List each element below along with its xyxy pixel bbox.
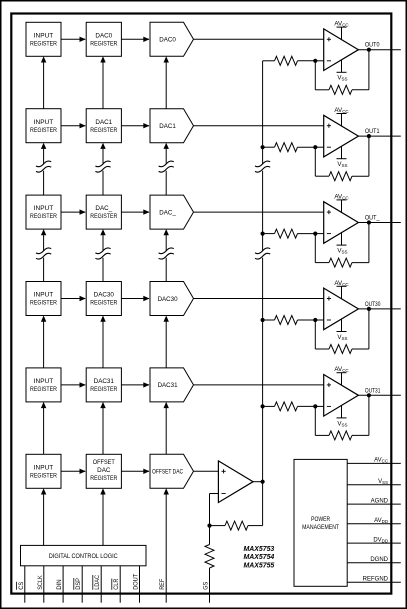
svg-text:OUT31: OUT31	[365, 387, 381, 394]
svg-text:VSS: VSS	[337, 334, 347, 341]
power AVCC (op-amp OUT_)	[334, 193, 349, 212]
DAC_ register	[86, 195, 121, 229]
wire: DAC_ output to amplifier	[194, 211, 324, 213]
svg-text:REGISTER: REGISTER	[30, 213, 57, 220]
svg-text:DIGITAL CONTROL LOGIC: DIGITAL CONTROL LOGIC	[49, 553, 118, 560]
svg-text:REGISTER: REGISTER	[90, 40, 117, 47]
svg-text:REGISTER: REGISTER	[30, 472, 57, 479]
node: feedback bus tap row 3	[261, 318, 265, 322]
svg-text:INPUT: INPUT	[34, 205, 54, 212]
svg-text:AVCC: AVCC	[334, 280, 349, 287]
svg-text:DAC31: DAC31	[158, 382, 179, 389]
wire: DAC reference bus segment rows 0-1	[164, 56, 169, 108]
op-amp OUT_ buffer	[324, 202, 359, 244]
svg-text:OUT30: OUT30	[365, 301, 381, 308]
resistor (feedback, OUT31 stage)	[315, 395, 369, 440]
resistor (feedback, OUT30 stage)	[315, 309, 369, 354]
svg-text:DSP: DSP	[75, 578, 82, 590]
DAC_ converter	[150, 195, 194, 229]
DAC30 converter	[150, 282, 194, 316]
node: offset amp output junction	[261, 480, 265, 484]
wire	[315, 233, 323, 235]
node GS label	[203, 582, 210, 590]
node: OUT0 junction	[367, 48, 371, 52]
wire: input register to dac1 register	[61, 123, 86, 128]
wire: dac30 register to DAC30	[121, 296, 149, 301]
wire: control to input registers	[41, 488, 46, 545]
svg-text:DOUT: DOUT	[133, 574, 140, 590]
node: inverting input junction OUT_	[313, 232, 317, 236]
svg-text:VSS: VSS	[337, 161, 347, 168]
wire: DAC0 output to amplifier	[194, 38, 324, 40]
svg-text:SCLK: SCLK	[37, 575, 44, 590]
resistor (GS gain select)	[205, 526, 214, 603]
pin CLR	[112, 566, 120, 603]
wire: input register to dac30 register	[61, 296, 86, 301]
power VSS (op-amp OUT31)	[337, 405, 348, 427]
wire: control to DAC registers	[100, 488, 105, 545]
wire: DAC reference bus segment rows 1-2	[159, 143, 174, 195]
resistor (gain set, OUT0 stage)	[263, 56, 316, 65]
wire: DAC reference bus segment rows 3-4	[164, 316, 169, 368]
svg-text:AVCC: AVCC	[334, 21, 349, 28]
svg-text:DAC30: DAC30	[158, 296, 179, 303]
wire: input-register data bus segment rows 3-4	[41, 316, 46, 368]
svg-text:REGISTER: REGISTER	[30, 386, 57, 393]
wire: OUT31 output	[358, 394, 400, 396]
svg-text:AVCC: AVCC	[334, 366, 349, 373]
svg-text:DAC0: DAC0	[159, 37, 176, 44]
wire: DAC31 output to amplifier	[194, 384, 324, 386]
wire	[315, 146, 323, 148]
power AVCC (op-amp OUT31)	[334, 366, 349, 385]
svg-text:DAC1: DAC1	[95, 119, 112, 126]
wire: input-register data bus segment rows 0-1	[41, 56, 46, 108]
svg-text:AVCC: AVCC	[334, 107, 349, 114]
resistor (gain set, OUT30 stage)	[263, 316, 316, 325]
node: OUT30 junction	[367, 307, 371, 311]
svg-text:REGISTER: REGISTER	[30, 127, 57, 134]
OFFSET DAC converter	[150, 454, 194, 488]
pin DIN	[56, 566, 63, 603]
svg-text:VSS: VSS	[337, 248, 347, 255]
wire: DAC-register data bus segment rows 2-3	[95, 229, 110, 281]
svg-text:POWER: POWER	[311, 516, 330, 523]
svg-text:REGISTER: REGISTER	[90, 127, 117, 134]
wire: offset feedback bus	[255, 61, 270, 482]
wire: input register to dac_ register	[61, 209, 86, 214]
svg-text:OFFSET: OFFSET	[93, 459, 115, 466]
svg-text:AVDD: AVDD	[374, 518, 388, 524]
svg-text:REF: REF	[159, 579, 166, 590]
wire: OUT_ output	[358, 222, 400, 224]
node: feedback bus tap row 4	[261, 404, 265, 408]
resistor (gain set, OUT_ stage)	[263, 229, 316, 238]
svg-text:INPUT: INPUT	[34, 32, 54, 39]
pin REFGND	[347, 576, 401, 582]
pin LDAC	[93, 566, 101, 603]
node: offset feedback junction	[207, 524, 211, 528]
wire: DAC-register data bus segment rows 1-2	[95, 143, 110, 195]
node: OUT_ junction	[367, 220, 371, 224]
wire: input register to dac31 register	[61, 382, 86, 387]
wire: input register to dac0 register	[61, 37, 86, 42]
svg-text:INPUT: INPUT	[34, 464, 54, 471]
node: inverting input junction OUT0	[313, 59, 317, 63]
svg-text:MAX5753: MAX5753	[244, 546, 275, 553]
node REF label	[159, 579, 166, 590]
resistor (offset feedback)	[210, 482, 263, 530]
wire: DAC-register data bus segment rows 3-4	[100, 316, 105, 368]
wire: DAC reference bus segment rows 2-3	[159, 229, 174, 281]
DAC31 converter	[150, 368, 194, 402]
input register (DAC1 row)	[26, 109, 61, 143]
node: feedback bus tap row 1	[261, 145, 265, 149]
svg-text:REGISTER: REGISTER	[90, 213, 117, 220]
wire: dac0 register to DAC0	[121, 37, 149, 42]
pin DVDD	[347, 537, 401, 543]
pin DSP	[74, 566, 82, 603]
svg-text:REGISTER: REGISTER	[90, 300, 117, 307]
svg-text:INPUT: INPUT	[34, 378, 54, 385]
op-amp OUT1 buffer	[324, 115, 359, 157]
node: inverting input junction OUT31	[313, 404, 317, 408]
op-amp offset amplifier	[218, 461, 253, 503]
DAC30 register	[86, 282, 121, 316]
power AVCC (op-amp OUT0)	[334, 21, 349, 40]
svg-text:MANAGEMENT: MANAGEMENT	[302, 524, 339, 531]
power AVCC (op-amp OUT1)	[334, 107, 349, 126]
op-amp OUT30 buffer	[324, 288, 359, 330]
pin VSS	[347, 479, 401, 485]
input register (DAC0 row)	[26, 22, 61, 56]
pin AGND	[347, 498, 401, 504]
resistor (feedback, OUT_ stage)	[315, 223, 369, 268]
svg-text:MAX5755: MAX5755	[244, 563, 275, 570]
svg-text:VSS: VSS	[337, 420, 347, 427]
svg-text:DAC1: DAC1	[159, 123, 176, 130]
wire	[315, 319, 323, 321]
svg-text:INPUT: INPUT	[34, 119, 54, 126]
DAC1 converter	[150, 109, 194, 143]
DAC0 register	[86, 22, 121, 56]
label MAX5753/MAX5754/MAX5755	[244, 546, 275, 570]
svg-text:REFGND: REFGND	[363, 576, 389, 582]
svg-text:LDAC: LDAC	[94, 575, 101, 590]
svg-text:AVCC: AVCC	[374, 458, 388, 464]
wire: offset amp inverting input	[210, 494, 219, 526]
wire: DAC-register data bus segment rows 0-1	[100, 56, 105, 108]
svg-text:DAC_: DAC_	[159, 209, 176, 216]
node: inverting input junction OUT1	[313, 145, 317, 149]
pin AVCC	[347, 458, 401, 464]
wire: DAC1 output to amplifier	[194, 125, 324, 127]
svg-text:AVCC: AVCC	[334, 193, 349, 200]
wire: dac1 register to DAC1	[121, 123, 149, 128]
pin DOUT	[133, 566, 140, 603]
pin DGND	[347, 557, 401, 563]
wire: dac_ register to DAC_	[121, 209, 149, 214]
svg-text:DVDD: DVDD	[373, 537, 388, 543]
svg-text:DAC0: DAC0	[95, 32, 112, 39]
input register (DAC31 row)	[26, 368, 61, 402]
svg-text:REGISTER: REGISTER	[90, 386, 117, 393]
pin CS	[16, 566, 24, 603]
op-amp OUT0 buffer	[324, 29, 359, 71]
node: inverting input junction OUT30	[313, 318, 317, 322]
power VSS (op-amp OUT30)	[337, 319, 348, 341]
svg-text:OUT0: OUT0	[365, 42, 380, 49]
wire: DAC-register data bus segment rows 4-5	[100, 402, 105, 454]
wire: offset amp output	[253, 481, 263, 483]
wire: OUT1 output	[358, 135, 400, 137]
DAC0 converter	[150, 22, 194, 56]
wire	[315, 405, 323, 407]
offset DAC register	[86, 454, 121, 488]
svg-text:DAC: DAC	[97, 467, 111, 474]
svg-text:VSS: VSS	[378, 479, 388, 485]
wire: input-register data bus segment rows 1-2	[36, 143, 51, 195]
resistor (gain set, OUT31 stage)	[263, 402, 316, 411]
input register (DAC30 row)	[26, 282, 61, 316]
wire: dac31 register to DAC31	[121, 382, 149, 387]
svg-text:REGISTER: REGISTER	[30, 40, 57, 47]
DAC1 register	[86, 109, 121, 143]
svg-text:CLR: CLR	[113, 578, 120, 590]
wire: DAC30 output to amplifier	[194, 298, 324, 300]
wire: input-register data bus segment rows 4-5	[41, 402, 46, 454]
wire: offset dac register to OFFSET DAC	[121, 469, 149, 474]
digital control logic block	[21, 545, 147, 565]
svg-text:DGND: DGND	[370, 557, 388, 563]
wire: DAC reference bus segment rows 4-5	[164, 402, 169, 454]
svg-text:DAC30: DAC30	[94, 292, 115, 299]
svg-text:INPUT: INPUT	[34, 292, 54, 299]
svg-text:MAX5754: MAX5754	[244, 554, 275, 561]
node: feedback bus tap row 2	[261, 232, 265, 236]
wire: input register to offset dac register	[61, 469, 86, 474]
svg-text:DAC31: DAC31	[94, 378, 115, 385]
wire: offset DAC output to amplifier	[194, 470, 219, 472]
power VSS (op-amp OUT1)	[337, 146, 348, 168]
svg-text:AGND: AGND	[371, 498, 389, 504]
svg-text:OFFSET DAC: OFFSET DAC	[152, 469, 183, 476]
wire: OUT30 output	[358, 308, 400, 310]
svg-text:REGISTER: REGISTER	[30, 300, 57, 307]
node REF input line	[164, 488, 169, 602]
resistor (feedback, OUT0 stage)	[315, 50, 369, 95]
power VSS (op-amp OUT0)	[337, 60, 348, 82]
svg-text:OUT1: OUT1	[365, 128, 380, 135]
power AVCC (op-amp OUT30)	[334, 280, 349, 299]
power VSS (op-amp OUT_)	[337, 233, 348, 255]
wire: input-register data bus segment rows 2-3	[36, 229, 51, 281]
svg-text:DIN: DIN	[56, 579, 63, 590]
power management block	[294, 459, 347, 586]
resistor (gain set, OUT1 stage)	[263, 143, 316, 152]
svg-text:GS: GS	[203, 582, 210, 590]
svg-text:DAC_: DAC_	[95, 205, 112, 212]
svg-text:VSS: VSS	[337, 75, 347, 82]
svg-text:REGISTER: REGISTER	[90, 475, 117, 482]
node: OUT31 junction	[367, 393, 371, 397]
resistor (feedback, OUT1 stage)	[315, 136, 369, 181]
wire: OUT0 output	[358, 49, 400, 51]
svg-text:OUT_: OUT_	[365, 215, 380, 222]
input register (OFFSET DAC row)	[26, 454, 61, 488]
svg-text:CS: CS	[18, 582, 25, 590]
DAC31 register	[86, 368, 121, 402]
wire	[315, 60, 323, 62]
pin AVDD	[347, 518, 401, 524]
pin SCLK	[37, 566, 44, 603]
op-amp OUT31 buffer	[324, 375, 359, 417]
node: OUT1 junction	[367, 134, 371, 138]
input register (DAC_ row)	[26, 195, 61, 229]
